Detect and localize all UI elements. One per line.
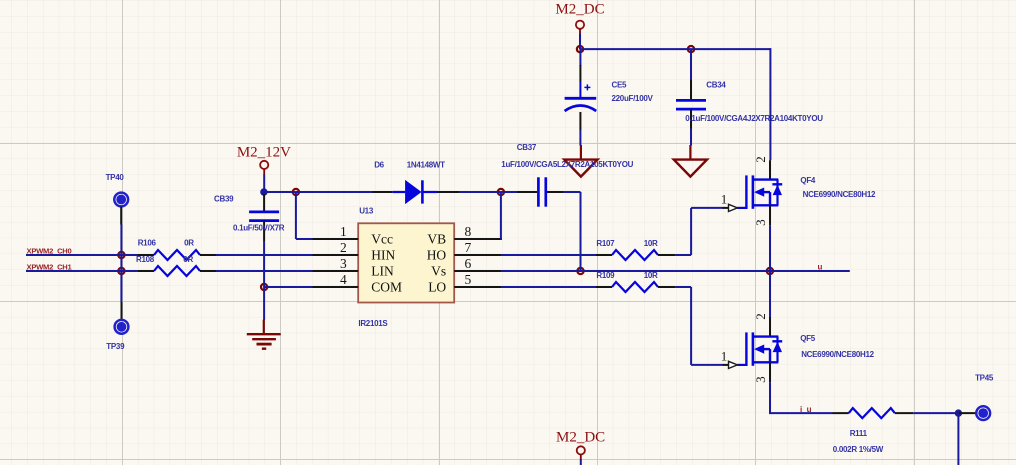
pin TP40 (120, 207, 122, 225)
svg-text:0.1uF/50V/X7R: 0.1uF/50V/X7R (233, 224, 285, 233)
junction M2_12V node (260, 188, 267, 195)
resistor R106 (138, 250, 216, 260)
ground GND below CE5 (564, 145, 597, 177)
label TP45 (975, 374, 994, 383)
svg-text:LIN: LIN (371, 264, 394, 279)
transistor QF5 (721, 313, 782, 383)
svg-text:TP45: TP45 (975, 374, 994, 383)
svg-text:M2_DC: M2_DC (555, 2, 604, 18)
test point TP45 (976, 406, 990, 420)
wire QF5 to R111 (769, 412, 833, 414)
svg-text:TP39: TP39 (106, 342, 125, 351)
svg-text:R106: R106 (138, 238, 157, 247)
net label XPWM2_CH1 (27, 263, 73, 272)
label D6 (374, 160, 384, 169)
wire QF5 source down (769, 382, 771, 413)
junction VB node (498, 189, 504, 195)
svg-text:2: 2 (753, 313, 768, 320)
wire TP40 to TP39 (120, 225, 122, 303)
wire COM junction to pin 4 (264, 286, 313, 288)
wire R109 to QF5 gate (676, 287, 724, 365)
svg-text:10R: 10R (644, 271, 658, 280)
wire XPWM2_CH1 (26, 270, 139, 272)
svg-text:HO: HO (427, 248, 447, 263)
wire CE5 to ground (579, 130, 581, 146)
svg-text:1: 1 (340, 224, 347, 239)
ground GND below CB34 (674, 145, 707, 177)
svg-text:R109: R109 (596, 271, 615, 280)
pin 3 LIN (313, 256, 395, 279)
junction COM (261, 284, 267, 290)
svg-text:7: 7 (465, 240, 472, 255)
junction Vcc branch (293, 189, 299, 195)
wire 12V node to Vcc branch (264, 191, 296, 193)
wire R108 to LIN (216, 270, 313, 272)
resistor R107 (596, 250, 676, 260)
wire Vcc-branch to D6 (296, 191, 373, 193)
wire Vs to QF5 drain (769, 271, 771, 317)
svg-text:QF4: QF4 (800, 176, 816, 185)
transistor QF4 (721, 156, 782, 226)
label CB37 (517, 143, 537, 152)
wire VB node to CB37 (501, 191, 518, 193)
net label XPWM2_CH0 (27, 247, 72, 256)
svg-text:NCE6990/NCE80H12: NCE6990/NCE80H12 (801, 350, 874, 359)
wire M2_12V to node (263, 175, 265, 192)
svg-text:2: 2 (340, 240, 347, 255)
wire rail to QF4 drain (769, 48, 771, 160)
svg-text:0.002R 1%/5W: 0.002R 1%/5W (833, 445, 884, 454)
svg-text:LO: LO (428, 280, 446, 295)
label R106 (138, 238, 157, 247)
label R109 (596, 271, 615, 280)
svg-text:QF5: QF5 (800, 334, 816, 343)
svg-text:220uF/100V: 220uF/100V (612, 94, 654, 103)
power port M2_DC (bottom) (556, 429, 605, 459)
svg-text:10R: 10R (644, 239, 658, 248)
value 1N4148WT (407, 160, 445, 169)
pin 2 HIN (313, 240, 396, 263)
capacitor CB37 (517, 177, 563, 206)
ground earth below CB39 (247, 320, 281, 349)
value 10R (R107) (644, 239, 658, 248)
wire Vs to phase (501, 270, 850, 272)
value NCE6990/NCE80H12 (QF4) (803, 190, 876, 199)
wire M2_DC bottom to edge (580, 459, 582, 465)
svg-text:COM: COM (371, 280, 402, 295)
op-amp U13 IR2101S body (358, 223, 454, 302)
junction top rail / CE5 (577, 46, 583, 52)
svg-text:3: 3 (340, 256, 347, 271)
wire CB37 to Vs drop (563, 192, 581, 271)
capacitor CB39 (249, 194, 279, 241)
svg-text:0R: 0R (184, 238, 194, 247)
power port M2_DC (top) (555, 2, 604, 34)
label QF4 (800, 176, 816, 185)
value 0.1uF/100V/CGA4J2X7R2A104KT0YOU (685, 114, 823, 123)
junction TP line / CH1 (118, 268, 124, 274)
svg-text:1: 1 (721, 348, 728, 363)
wire LO to R109 (501, 286, 596, 288)
svg-text:CB34: CB34 (706, 80, 726, 89)
svg-text:1N4148WT: 1N4148WT (407, 160, 445, 169)
capacitor CB34 (676, 80, 706, 129)
svg-text:5: 5 (465, 272, 472, 287)
wire M2_DC to top rail (579, 34, 581, 50)
label U13 (359, 207, 374, 216)
pin 8 VB (427, 224, 501, 247)
svg-text:U13: U13 (359, 207, 374, 216)
label QF5 (800, 334, 816, 343)
svg-text:CB39: CB39 (214, 195, 234, 204)
svg-text:3: 3 (753, 219, 768, 226)
svg-text:TP40: TP40 (106, 173, 125, 182)
svg-text:HIN: HIN (371, 248, 395, 263)
value 220uF/100V (612, 94, 654, 103)
svg-text:Vcc: Vcc (371, 232, 393, 247)
wire HO to R107 (501, 254, 596, 256)
svg-text:R107: R107 (596, 239, 615, 248)
value 0.1uF/50V/X7R (233, 224, 285, 233)
value 10R (R109) (644, 271, 658, 280)
svg-text:0.1uF/100V/CGA4J2X7R2A104KT0YO: 0.1uF/100V/CGA4J2X7R2A104KT0YOU (685, 114, 823, 123)
pin 7 HO (427, 240, 501, 263)
svg-text:3: 3 (753, 376, 768, 383)
label R111 (850, 429, 868, 438)
label TP39 (106, 342, 125, 351)
svg-text:Vs: Vs (431, 264, 446, 279)
wire top rail (580, 48, 770, 50)
svg-text:CB37: CB37 (517, 143, 537, 152)
value 0.002R 1%/5W (833, 445, 884, 454)
svg-text:R108: R108 (136, 255, 155, 264)
power port M2_12V (237, 144, 291, 175)
svg-text:1uF/100V/CGA5L2X7R2A105KT0YOU: 1uF/100V/CGA5L2X7R2A105KT0YOU (501, 160, 633, 169)
value NCE6990/NCE80H12 (QF5) (801, 350, 874, 359)
svg-text:4: 4 (340, 272, 347, 287)
value 0R (R108) (183, 255, 193, 264)
wire R111 to TP45 node (913, 412, 958, 414)
svg-text:1: 1 (721, 191, 728, 206)
junction top rail / CB34 (688, 46, 694, 52)
label R108 (136, 255, 155, 264)
svg-text:R111: R111 (850, 429, 868, 438)
resistor R108 (138, 266, 216, 276)
svg-text:IR2101S: IR2101S (358, 319, 388, 328)
junction TP line / CH0 (118, 252, 124, 258)
resistor R109 (596, 282, 676, 292)
svg-text:6: 6 (465, 256, 472, 271)
net label u (818, 263, 823, 272)
junction bootstrap / Vs (577, 268, 583, 274)
resistor R111 (833, 408, 914, 418)
wire R107 to QF4 gate (676, 208, 724, 255)
label CB34 (706, 80, 726, 89)
diode D6 (373, 180, 460, 204)
svg-text:VB: VB (427, 232, 446, 247)
wire CB39 down to COM junction (263, 241, 265, 287)
wire XPWM2_CH0 (26, 254, 139, 256)
wire R106 to HIN (216, 254, 313, 256)
value 0R (R106) (184, 238, 194, 247)
value 1uF/100V/CGA5L2X7R2A105KT0YOU (501, 160, 633, 169)
net label i_u (800, 405, 812, 414)
wire QF4 source to Vs (769, 225, 771, 271)
wire Vcc branch down (295, 192, 297, 239)
pin 6 Vs (431, 256, 501, 279)
wire VB node down to pin 8 (501, 192, 502, 239)
pin TP45 (958, 412, 975, 414)
capacitor CE5 (565, 65, 597, 130)
svg-text:D6: D6 (374, 160, 384, 169)
wire COM junction to ground (263, 287, 265, 320)
label TP40 (106, 173, 125, 182)
wire Vcc branch to pin1 (296, 238, 313, 240)
pin 5 LO (428, 272, 501, 295)
label IR2101S (358, 319, 388, 328)
svg-text:0R: 0R (183, 255, 193, 264)
wire shunt to bottom edge (957, 413, 959, 465)
label R107 (596, 239, 615, 248)
svg-text:NCE6990/NCE80H12: NCE6990/NCE80H12 (803, 190, 876, 199)
wire CB34 to ground (690, 129, 692, 146)
svg-text:M2_DC: M2_DC (556, 429, 605, 445)
pin 4 COM (313, 272, 403, 295)
test point TP40 (114, 193, 128, 207)
svg-text:CE5: CE5 (612, 80, 628, 89)
svg-text:8: 8 (465, 224, 472, 239)
svg-text:u: u (818, 263, 823, 272)
svg-text:2: 2 (753, 156, 768, 163)
wire rail to CE5 (579, 49, 581, 66)
pin TP39 (121, 302, 123, 320)
wire D6 to VB node (459, 191, 501, 193)
test point TP39 (115, 320, 129, 334)
label CB39 (214, 195, 234, 204)
svg-text:M2_12V: M2_12V (237, 144, 291, 160)
label CE5 (612, 80, 628, 89)
junction TP45 node (955, 409, 962, 416)
junction Vs / half-bridge (767, 268, 773, 274)
pin 1 Vcc (313, 224, 394, 247)
wire rail to CB34 (690, 49, 692, 81)
